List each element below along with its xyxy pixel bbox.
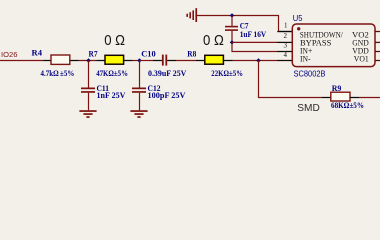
wire down to C11 (88, 61, 90, 89)
svg-text:2: 2 (284, 32, 288, 40)
wire IO26 to R4 (0, 60, 51, 62)
capacitor C11 (81, 83, 126, 110)
wire C10 to R8 (176, 60, 196, 62)
svg-text:47KΩ±5%: 47KΩ±5% (96, 68, 128, 78)
wire ground rail to pin 1 (197, 16, 293, 32)
wire feedback down and right to R9 (259, 61, 323, 98)
node junction A (86, 58, 90, 62)
node junction D (C7 tap on rail) (230, 13, 234, 17)
right side pin stubs (375, 32, 380, 61)
resistor R9 (322, 83, 364, 110)
svg-text:3: 3 (284, 42, 288, 50)
svg-text:R9: R9 (332, 83, 342, 93)
svg-text:R7: R7 (89, 48, 99, 58)
svg-text:0.39uF 25V: 0.39uF 25V (148, 68, 187, 78)
wire down to pin 3 row (232, 42, 278, 51)
svg-text:1nF 25V: 1nF 25V (97, 90, 127, 100)
capacitor C12 (132, 83, 186, 110)
wire down to C12 (139, 61, 141, 89)
node junction C (feedback tap) (256, 58, 260, 62)
svg-text:R8: R8 (187, 48, 196, 58)
node junction B (137, 58, 141, 62)
pin 3 stub (277, 42, 292, 52)
resistor R4 (32, 48, 79, 79)
capacitor C7 (225, 16, 267, 43)
svg-text:68KΩ±5%: 68KΩ±5% (331, 100, 364, 110)
svg-text:R4: R4 (32, 48, 43, 58)
pin 4 stub (277, 51, 292, 61)
svg-text:VO1: VO1 (354, 54, 369, 64)
svg-text:IN-: IN- (300, 54, 311, 64)
wire R8 to pin 4 (233, 60, 278, 62)
ground below C12 (130, 110, 147, 118)
wire R9 to right edge (359, 97, 380, 99)
svg-text:IO26: IO26 (1, 50, 17, 59)
wire R4 to R7 (79, 60, 97, 62)
svg-text:4: 4 (284, 51, 288, 59)
ground below C11 (79, 110, 96, 118)
svg-text:SMD: SMD (297, 102, 320, 114)
wire C7 to pin 2 (232, 41, 278, 43)
capacitor C10 (series) (140, 48, 188, 78)
svg-text:0 Ω: 0 Ω (203, 32, 224, 49)
pin 1 stub (277, 22, 292, 32)
svg-text:0 Ω: 0 Ω (104, 32, 125, 49)
svg-text:22KΩ±5%: 22KΩ±5% (211, 68, 243, 78)
resistor R8 (0 ohm, yellow) (187, 48, 243, 78)
svg-text:100pF 25V: 100pF 25V (148, 90, 187, 100)
resistor R7 (0 ohm, yellow) (89, 48, 133, 78)
svg-text:1uF 16V: 1uF 16V (240, 29, 267, 39)
svg-text:U5: U5 (293, 13, 303, 23)
ground (top rail) (186, 8, 197, 22)
wire R7 to junction (133, 60, 141, 62)
node junction E (pin 2 wire) (230, 40, 234, 44)
svg-text:SC8002B: SC8002B (294, 69, 326, 79)
svg-text:4.7kΩ ±5%: 4.7kΩ ±5% (41, 68, 75, 78)
svg-text:1: 1 (284, 22, 288, 30)
op-amp U5 body (SC8002B) (292, 24, 375, 67)
pin 1 marker dot (297, 27, 300, 30)
svg-text:C10: C10 (141, 48, 156, 58)
pin 2 stub (277, 32, 292, 42)
